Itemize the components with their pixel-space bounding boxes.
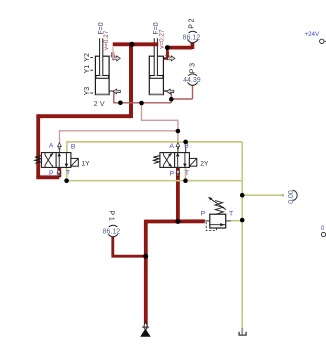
svg-text:+24V: +24V	[305, 31, 320, 38]
svg-text:T: T	[185, 170, 189, 177]
tank symbol	[239, 328, 246, 335]
svg-text:44.39: 44.39	[183, 77, 201, 84]
node: junction dot on segment A	[129, 42, 134, 47]
wire: thick bottom segment to valve 1Y P port	[36, 167, 59, 177]
electrical 0V terminal circle	[321, 232, 325, 236]
wire: main riser from node at (131,44) down	[129, 42, 133, 118]
valve 1Y right square straight arrows	[57, 153, 68, 167]
wire: thick left vertical down to valve 1Y	[36, 114, 40, 177]
node: junction dot near cyl1 bottom line	[118, 101, 123, 106]
node: junction dot cyl2 bottom / P3	[169, 97, 174, 102]
svg-text:86.12: 86.12	[183, 34, 201, 41]
wire: thick segment left at y=116	[38, 114, 131, 118]
svg-text:B: B	[71, 143, 76, 150]
svg-text:1Y: 1Y	[82, 161, 91, 168]
node: junction dot branch to valve 2Y A	[139, 101, 144, 106]
wire: olive T rail	[67, 168, 243, 181]
svg-text:P 3: P 3	[189, 63, 196, 73]
valve 1Y P-port flow arrow	[57, 169, 61, 176]
wire: cyl2 rod port stub	[163, 48, 168, 59]
gauge P3 value background	[183, 76, 203, 83]
flow meter circle	[287, 190, 297, 200]
wire: pump riser	[144, 220, 148, 329]
wire: olive B rail valve1Y-B to trunk	[67, 142, 242, 153]
node: junction dot valve 1Y T	[64, 178, 69, 183]
cylinder 1 bottom port flow arrow (gray left)	[113, 89, 120, 94]
wire: valve A port gray stubs	[60, 148, 178, 153]
node: junction dot olive B rail at valve 2Y	[183, 140, 188, 145]
electrical +24V terminal circle	[320, 39, 326, 43]
svg-text:Y1: Y1	[84, 65, 91, 74]
cylinder 2 bottom port flow arrow (gray left)	[167, 89, 174, 94]
wire: thick segment B (cyl2 rod node to gauge P2)	[167, 43, 192, 49]
pressure relief valve body	[205, 214, 231, 228]
node: junction dot trunk flow meter branch	[240, 193, 245, 198]
cylinder 2 piston	[150, 76, 163, 79]
svg-text:P: P	[201, 210, 206, 217]
cylinder 2 piston rod	[154, 38, 157, 75]
flow meter value background	[284, 186, 293, 204]
valve 1Y A-port flow arrow	[58, 143, 62, 149]
cylinder 1 piston rod	[100, 38, 103, 75]
svg-text:P: P	[170, 171, 175, 178]
svg-text:T: T	[66, 170, 70, 177]
cylinder 2 rod-side port red stub arrow	[165, 52, 169, 59]
gauge P3 circle	[187, 74, 198, 85]
node: junction dot cyl2 rod port	[165, 45, 170, 50]
svg-text:P 2: P 2	[189, 18, 196, 28]
wire: valve 2Y P port riser down to bottom rail	[176, 168, 180, 222]
wire: olive trunk down to tank	[241, 142, 243, 328]
svg-text:T: T	[229, 210, 233, 217]
valve 2Y A-port flow arrow	[176, 143, 180, 149]
valve 2Y solenoid	[189, 158, 196, 166]
cylinder 1 rod-side port flow arrow (gray right)	[113, 56, 120, 61]
relief valve adjustment arrow	[208, 197, 226, 210]
relief valve pilot dashed line	[206, 222, 216, 231]
gauge P1 circle	[107, 225, 118, 236]
cylinder 1 rod-side port flow arrow (red down)	[111, 52, 115, 59]
svg-text:2 V: 2 V	[94, 99, 105, 108]
cylinder 2 barrel	[149, 56, 163, 94]
valve 2Y P-port flow arrow	[176, 169, 180, 176]
wire: thick bottom horizontal to relief valve P	[146, 219, 205, 223]
svg-text:v=0.27: v=0.27	[159, 29, 166, 49]
pump flow arrow (white up)	[144, 322, 148, 330]
valve 2Y right square straight arrows	[176, 153, 187, 167]
wire: gauge P3 connection stub	[192, 85, 194, 99]
svg-text:0.00: 0.00	[288, 190, 295, 204]
wire: cylinder bottom net horizontal (medium red)	[109, 91, 171, 103]
valve 2Y body	[160, 153, 190, 168]
valve 1Y spring	[35, 156, 42, 164]
valve 2Y spring	[153, 156, 160, 164]
cylinder 2 rod-side port flow arrow (gray right)	[168, 56, 175, 61]
node: junction dot pale rail at valve 2Y A riser	[176, 129, 181, 134]
wire: olive branch to flow meter	[242, 194, 286, 197]
valve 1Y solenoid	[71, 158, 78, 166]
cylinder 1 piston	[96, 76, 109, 79]
gauge P2 value background	[183, 33, 203, 40]
svg-text:2Y: 2Y	[200, 160, 209, 167]
node: junction dot trunk relief T	[240, 218, 245, 223]
gauge P1 value background	[103, 227, 123, 234]
wire: thick pressure line segment A (cyl1 rod port to cyl2 rod)	[113, 44, 159, 58]
valve 1Y left square crossed arrows	[45, 153, 53, 168]
valve 1Y body	[41, 153, 71, 168]
wire: olive relief valve T to trunk	[231, 220, 242, 222]
svg-text:A: A	[169, 143, 174, 150]
wire: pale rail L1 valve 1Y A to valve 2Y A	[60, 131, 178, 148]
valve 2Y left square crossed arrows	[164, 153, 172, 168]
node: junction dot bottom rail valve 2Y P	[175, 219, 180, 224]
svg-text:86.12: 86.12	[103, 229, 121, 236]
svg-text:Y3: Y3	[84, 87, 91, 96]
svg-text:v=0.27: v=0.27	[103, 30, 110, 50]
wire: gauge P1 connection line	[113, 236, 146, 256]
cylinder 1V barrel	[95, 56, 109, 94]
wire: cyl2 bottom port stub and jog to P3 rail	[163, 91, 192, 103]
pump pressure source triangle	[141, 329, 150, 336]
svg-text:A: A	[49, 143, 54, 150]
node: junction dot valve 2Y T	[183, 178, 188, 183]
svg-text:Y2: Y2	[84, 53, 91, 62]
wire: pale branch from node (141.5,103) to valve 2Y A port	[142, 103, 178, 131]
cylinder 1 ruler ticks	[90, 58, 93, 94]
node: junction dot pump riser P1	[143, 254, 148, 259]
svg-text:P: P	[49, 170, 54, 177]
relief valve internal arrow	[210, 223, 226, 226]
relief valve spring	[215, 201, 224, 215]
svg-text:P 1: P 1	[108, 210, 115, 220]
svg-text:0: 0	[321, 225, 325, 232]
gauge P2 circle	[187, 31, 198, 42]
